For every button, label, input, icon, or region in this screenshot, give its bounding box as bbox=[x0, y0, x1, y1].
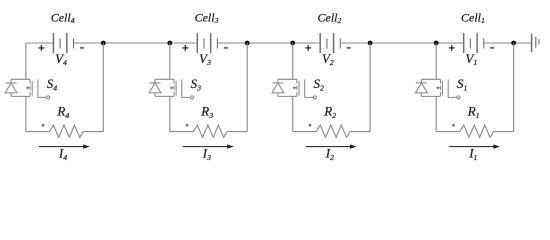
svg-text:I3: I3 bbox=[202, 146, 211, 162]
wire bottom-left segment cell1 bbox=[436, 131, 460, 133]
wire top-left segment cell2 bbox=[293, 42, 321, 44]
body diode of S3 bbox=[149, 79, 161, 96]
wire top-right segment cell2 bbox=[340, 42, 436, 44]
junction node (drain tap cell1) bbox=[434, 41, 439, 46]
svg-text:V1: V1 bbox=[465, 51, 477, 67]
svg-text:V4: V4 bbox=[55, 51, 67, 67]
wire bottom-right segment cell4 bbox=[83, 131, 103, 133]
svg-text:Cell2: Cell2 bbox=[318, 10, 342, 25]
current arrow I4 bbox=[39, 144, 90, 148]
battery V4 bbox=[53, 33, 73, 53]
sense terminal mark cell1 bbox=[452, 124, 455, 127]
wire source vertical cell2 bbox=[292, 96, 294, 131]
ground bbox=[532, 34, 539, 52]
battery minus terminal label cell1 bbox=[490, 47, 494, 49]
wire right vertical cell2 bbox=[369, 43, 371, 132]
wire drain vertical cell1 bbox=[435, 43, 437, 79]
svg-text:S2: S2 bbox=[314, 76, 325, 92]
sense terminal mark cell2 bbox=[309, 124, 312, 127]
wire bottom-right segment cell1 bbox=[494, 131, 514, 133]
battery minus terminal label cell3 bbox=[224, 47, 228, 49]
wire top-right segment cell1 bbox=[484, 42, 532, 44]
battery plus terminal label cell4 bbox=[39, 45, 45, 51]
cell block Cell1 bbox=[416, 10, 532, 162]
current arrow I1 bbox=[449, 144, 500, 148]
resistor R1 bbox=[460, 125, 494, 137]
svg-text:S1: S1 bbox=[457, 76, 468, 92]
current arrow I3 bbox=[183, 144, 234, 148]
battery V1 bbox=[464, 33, 484, 53]
junction node (cell2 return) bbox=[368, 41, 373, 46]
wire right vertical cell4 bbox=[102, 43, 104, 132]
wire top-left segment cell4 bbox=[26, 42, 54, 44]
wire bottom-left segment cell3 bbox=[170, 131, 194, 133]
svg-text:Cell1: Cell1 bbox=[461, 10, 485, 25]
resistor R3 bbox=[193, 125, 227, 137]
battery plus terminal label cell3 bbox=[182, 45, 188, 51]
wire top-left segment cell1 bbox=[436, 42, 464, 44]
wire drain vertical cell2 bbox=[292, 43, 294, 79]
svg-text:I2: I2 bbox=[325, 146, 334, 162]
transistor S3 (MOSFET) bbox=[155, 79, 194, 99]
wire top-right segment cell3 bbox=[217, 42, 292, 44]
svg-text:I4: I4 bbox=[58, 146, 67, 162]
svg-text:R2: R2 bbox=[323, 104, 336, 120]
wire top-left segment cell3 bbox=[170, 42, 198, 44]
wire source vertical cell1 bbox=[435, 96, 437, 131]
svg-text:V3: V3 bbox=[199, 51, 211, 67]
wire top-right segment cell4 bbox=[74, 42, 170, 44]
cell block Cell2 bbox=[272, 10, 436, 162]
svg-text:Cell4: Cell4 bbox=[51, 10, 75, 25]
transistor S4 (MOSFET) bbox=[11, 79, 50, 99]
svg-text:I1: I1 bbox=[468, 146, 477, 162]
sense terminal mark cell3 bbox=[186, 124, 189, 127]
wire source vertical cell4 bbox=[25, 96, 27, 131]
junction node (cell3 return) bbox=[245, 41, 250, 46]
wire bottom-left segment cell4 bbox=[26, 131, 50, 133]
current arrow I2 bbox=[306, 144, 357, 148]
cell block Cell3 bbox=[149, 10, 293, 162]
svg-text:S3: S3 bbox=[191, 76, 202, 92]
wire bottom-right segment cell3 bbox=[227, 131, 247, 133]
junction node (cell1 return) bbox=[511, 41, 516, 46]
wire bottom-left segment cell2 bbox=[293, 131, 317, 133]
battery plus terminal label cell2 bbox=[305, 45, 311, 51]
wire drain vertical cell3 bbox=[169, 43, 171, 79]
svg-text:R4: R4 bbox=[56, 104, 69, 120]
battery minus terminal label cell4 bbox=[80, 47, 84, 49]
body diode of S1 bbox=[416, 79, 428, 96]
battery V3 bbox=[197, 33, 217, 53]
wire source vertical cell3 bbox=[169, 96, 171, 131]
sense terminal mark cell4 bbox=[42, 124, 45, 127]
svg-text:R3: R3 bbox=[200, 104, 213, 120]
svg-text:V2: V2 bbox=[322, 51, 334, 67]
wire right vertical cell3 bbox=[246, 43, 248, 132]
junction node (drain tap cell3) bbox=[167, 41, 172, 46]
resistor R4 bbox=[49, 125, 83, 137]
wire bottom-right segment cell2 bbox=[350, 131, 370, 133]
junction node (drain tap cell2) bbox=[290, 41, 295, 46]
body diode of S4 bbox=[5, 79, 17, 96]
cell block Cell4 bbox=[5, 10, 170, 162]
svg-text:Cell3: Cell3 bbox=[195, 10, 219, 25]
transistor S2 (MOSFET) bbox=[278, 79, 317, 99]
battery plus terminal label cell1 bbox=[449, 45, 455, 51]
transistor S1 (MOSFET) bbox=[421, 79, 460, 99]
svg-text:S4: S4 bbox=[47, 76, 58, 92]
junction node (cell4 return) bbox=[101, 41, 106, 46]
battery V2 bbox=[320, 33, 340, 53]
resistor R2 bbox=[316, 125, 350, 137]
wire drain vertical cell4 bbox=[25, 43, 27, 79]
body diode of S2 bbox=[272, 79, 284, 96]
battery minus terminal label cell2 bbox=[347, 47, 351, 49]
svg-text:R1: R1 bbox=[467, 104, 480, 120]
wire right vertical cell1 bbox=[513, 43, 515, 132]
